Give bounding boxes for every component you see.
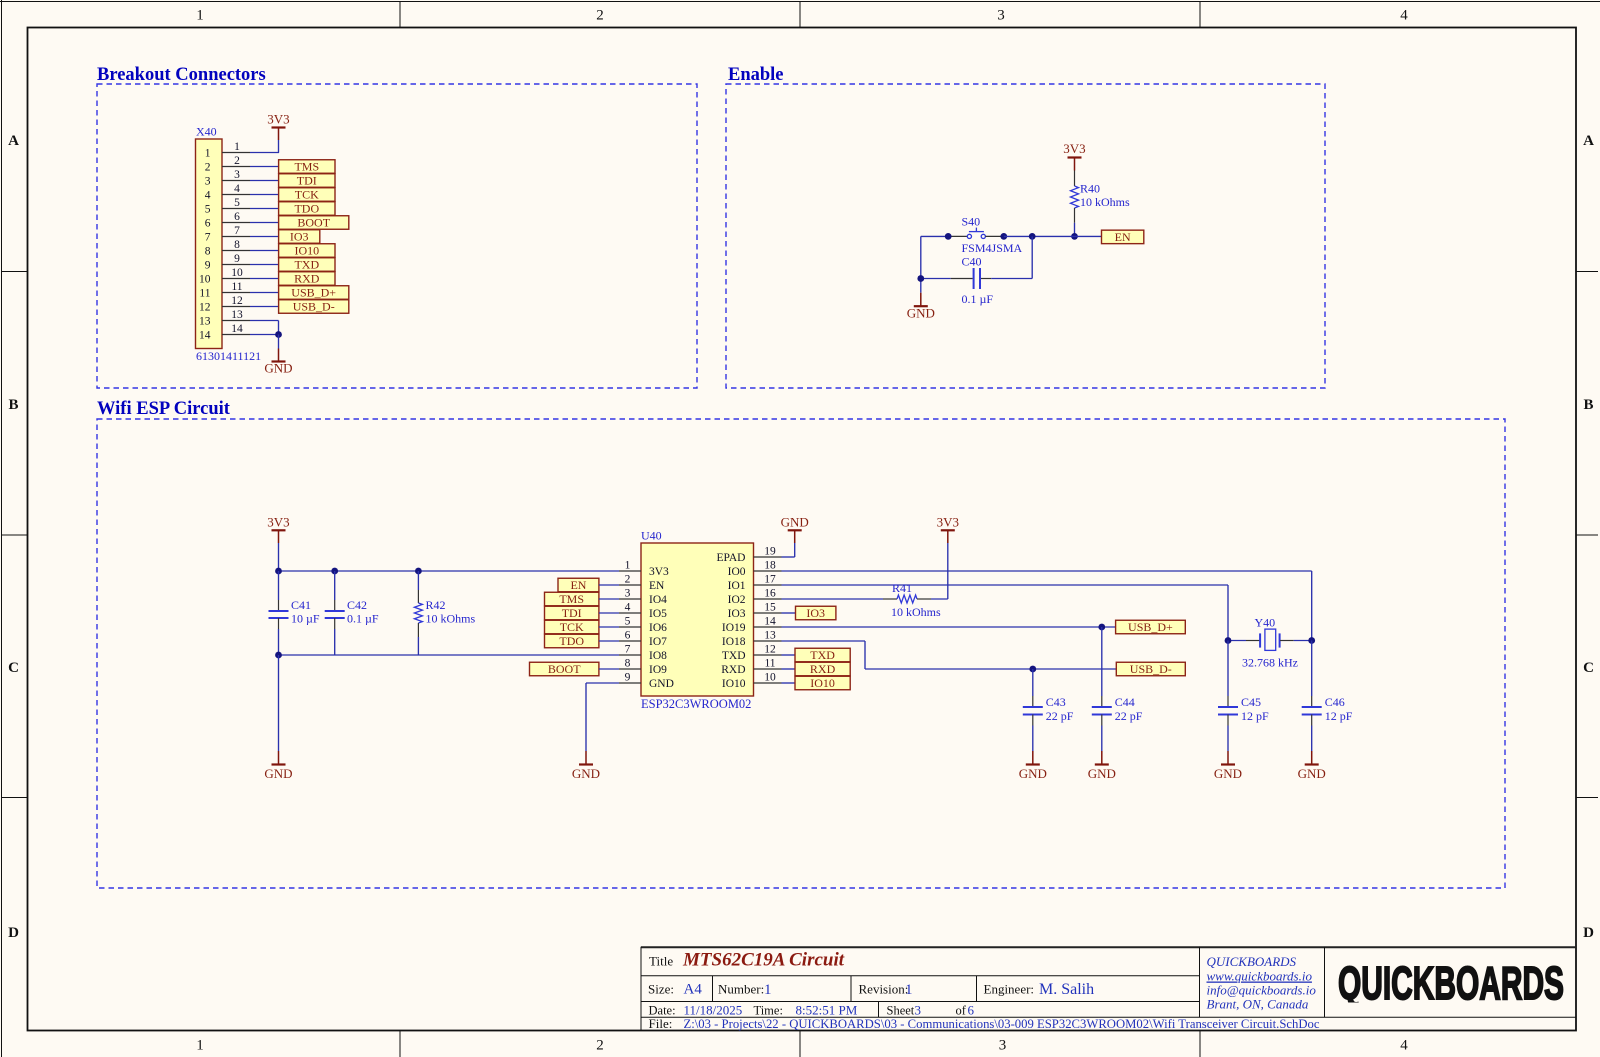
svg-text:GND: GND xyxy=(1088,766,1116,781)
wire GND net horizontal to pin 7 xyxy=(279,654,620,656)
svg-text:12 pF: 12 pF xyxy=(1241,709,1269,723)
svg-text:BOOT: BOOT xyxy=(548,662,581,676)
wire pin 3 to port xyxy=(250,180,279,182)
svg-text:61301411121: 61301411121 xyxy=(196,349,261,363)
svg-text:7: 7 xyxy=(234,225,240,237)
svg-text:Size:: Size: xyxy=(648,982,674,997)
svg-text:3V3: 3V3 xyxy=(1063,141,1085,156)
svg-text:1: 1 xyxy=(196,8,204,24)
port TMS xyxy=(545,592,599,606)
switch S40 FSM4JSMA xyxy=(948,215,1022,256)
svg-text:GND: GND xyxy=(649,678,674,690)
port TMS xyxy=(279,160,335,174)
svg-text:Enable: Enable xyxy=(728,65,784,85)
pin 17 of U40 xyxy=(754,574,782,586)
node C40 branch xyxy=(1029,233,1036,240)
svg-text:6: 6 xyxy=(205,218,211,230)
pin 12 of U40 xyxy=(754,644,782,656)
crystal Y40 32.768 kHz xyxy=(1228,616,1312,670)
svg-text:IO10: IO10 xyxy=(722,678,746,690)
svg-text:22 pF: 22 pF xyxy=(1046,709,1074,723)
node EN net junction R40 xyxy=(1071,233,1078,240)
svg-text:IO2: IO2 xyxy=(728,594,746,606)
svg-text:GND: GND xyxy=(781,515,809,530)
svg-text:3: 3 xyxy=(625,588,631,600)
svg-text:QUICKBOARDS: QUICKBOARDS xyxy=(1338,957,1564,1009)
node C43 branch xyxy=(1029,666,1036,673)
port TDI xyxy=(545,606,599,620)
svg-text:15: 15 xyxy=(764,602,776,614)
node GND branch xyxy=(917,275,924,282)
pin 9 of U40 xyxy=(619,672,641,684)
svg-text:11: 11 xyxy=(199,288,210,300)
svg-text:GND: GND xyxy=(1214,766,1242,781)
svg-text:R40: R40 xyxy=(1080,182,1100,196)
svg-text:7: 7 xyxy=(625,644,631,656)
svg-text:3V3: 3V3 xyxy=(267,515,289,530)
TITLE_BLOCK xyxy=(641,947,1576,1031)
svg-text:RXD: RXD xyxy=(294,272,320,286)
port USB_D+ xyxy=(279,286,349,300)
ground GND (X40) xyxy=(264,349,292,376)
pin 14 of U40 xyxy=(754,616,782,628)
svg-text:1: 1 xyxy=(764,982,772,998)
svg-text:QUICKBOARDS: QUICKBOARDS xyxy=(1207,954,1297,969)
svg-text:4: 4 xyxy=(1400,8,1408,24)
svg-text:18: 18 xyxy=(764,560,776,572)
power 3V3 (rail) xyxy=(267,515,289,544)
svg-text:Number:: Number: xyxy=(718,982,764,997)
wire R41 to 3V3 xyxy=(931,543,948,599)
pin 11 of X40 xyxy=(222,281,250,293)
wire 3V3 down to rail xyxy=(278,543,280,571)
svg-text:Title: Title xyxy=(649,954,673,969)
svg-text:IO4: IO4 xyxy=(649,594,667,606)
wire pin 12 to TXD port xyxy=(782,654,796,656)
port RXD xyxy=(795,662,850,676)
port TCK xyxy=(545,620,599,634)
op-amp U40 ESP32C3WROOM02 body xyxy=(641,529,754,712)
svg-text:USB_D-: USB_D- xyxy=(1130,662,1172,676)
svg-text:2: 2 xyxy=(234,155,240,167)
svg-text:22 pF: 22 pF xyxy=(1115,709,1143,723)
svg-text:Z:\03 - Projects\22 - QUICKBOA: Z:\03 - Projects\22 - QUICKBOARDS\03 - C… xyxy=(684,1017,1320,1031)
svg-text:GND: GND xyxy=(907,306,935,321)
wire pin 7 to port xyxy=(250,236,279,238)
svg-text:TCK: TCK xyxy=(295,188,319,202)
wire pin 11 to port xyxy=(250,292,279,294)
svg-text:TMS: TMS xyxy=(559,592,584,606)
svg-text:12: 12 xyxy=(199,302,211,314)
svg-text:14: 14 xyxy=(231,323,243,335)
svg-text:TDI: TDI xyxy=(297,174,317,188)
pin 7 of U40 xyxy=(619,644,641,656)
svg-text:S40: S40 xyxy=(962,215,981,229)
svg-text:USB_D-: USB_D- xyxy=(293,300,335,314)
svg-text:TXD: TXD xyxy=(810,648,835,662)
svg-text:16: 16 xyxy=(764,588,776,600)
node switch left xyxy=(945,233,952,240)
svg-text:GND: GND xyxy=(264,361,292,376)
svg-text:13: 13 xyxy=(231,309,243,321)
capacitor C44 22 pF xyxy=(1092,627,1143,751)
port EN xyxy=(1102,230,1144,244)
svg-text:TXD: TXD xyxy=(294,258,319,272)
svg-text:B: B xyxy=(1583,397,1593,413)
resistor R41 10 kOhms xyxy=(883,581,941,619)
svg-text:BOOT: BOOT xyxy=(297,216,330,230)
wire pin 13 (IO18) to USB_D- xyxy=(782,641,1117,669)
svg-text:A: A xyxy=(8,133,19,149)
svg-text:RXD: RXD xyxy=(810,662,836,676)
svg-text:3V3: 3V3 xyxy=(937,515,959,530)
svg-text:8: 8 xyxy=(625,658,631,670)
port TXD xyxy=(279,258,335,272)
svg-text:2: 2 xyxy=(625,574,631,586)
svg-text:C43: C43 xyxy=(1046,695,1066,709)
wire pin 8 to port xyxy=(250,250,279,252)
svg-text:10 kOhms: 10 kOhms xyxy=(891,605,941,619)
svg-text:EPAD: EPAD xyxy=(717,552,746,564)
svg-text:B: B xyxy=(8,397,18,413)
wire pin 14 (IO19) to USB_D+ xyxy=(782,626,1116,628)
svg-text:C41: C41 xyxy=(291,598,311,612)
node rail/R42 xyxy=(415,568,422,575)
wire 3V3 rail xyxy=(279,570,620,572)
svg-text:MTS62C19A Circuit: MTS62C19A Circuit xyxy=(682,950,845,971)
svg-text:D: D xyxy=(8,925,19,941)
svg-text:C42: C42 xyxy=(347,598,367,612)
svg-text:3V3: 3V3 xyxy=(649,566,669,578)
svg-text:info@quickboards.io: info@quickboards.io xyxy=(1207,983,1317,998)
svg-text:TMS: TMS xyxy=(294,160,319,174)
svg-text:www.quickboards.io: www.quickboards.io xyxy=(1207,969,1313,984)
ground GND (C43) xyxy=(1019,751,1047,781)
resistor R40 10 kOhms xyxy=(1071,171,1131,223)
pin 10 of X40 xyxy=(222,267,250,279)
wire pin 19 to GND xyxy=(782,543,795,557)
port USB_D+ xyxy=(1116,620,1186,634)
power 3V3 (R41) xyxy=(937,515,959,544)
wire pin 4 to port xyxy=(250,194,279,196)
node rail/C41 xyxy=(275,568,282,575)
svg-text:GND: GND xyxy=(264,766,292,781)
wire pin 2 to port xyxy=(250,166,279,168)
svg-text:TCK: TCK xyxy=(560,620,584,634)
svg-text:12 pF: 12 pF xyxy=(1325,709,1353,723)
capacitor C43 22 pF xyxy=(1023,669,1074,751)
svg-text:IO3: IO3 xyxy=(806,606,825,620)
wire BOOT port to pin 8 xyxy=(599,668,619,670)
port TDO xyxy=(279,202,335,216)
svg-text:0.1 µF: 0.1 µF xyxy=(347,612,379,626)
svg-text:11: 11 xyxy=(231,281,242,293)
svg-text:4: 4 xyxy=(205,190,211,202)
ground GND (C46) xyxy=(1298,751,1326,781)
svg-text:C44: C44 xyxy=(1115,695,1135,709)
svg-text:6: 6 xyxy=(625,630,631,642)
svg-text:4: 4 xyxy=(234,183,240,195)
wire pin 17 (IO1) to Y40 left xyxy=(782,585,1229,641)
svg-text:8: 8 xyxy=(205,246,211,258)
pin 12 of X40 xyxy=(222,295,250,307)
section Breakout Connectors xyxy=(97,65,697,388)
svg-text:10: 10 xyxy=(199,274,211,286)
ground GND (C45) xyxy=(1214,751,1242,781)
svg-text:9: 9 xyxy=(234,253,240,265)
wire 3V3 to pin 1 xyxy=(250,140,279,153)
wire pin 18 (IO0) to Y40 right xyxy=(782,571,1312,641)
pin 8 of X40 xyxy=(222,239,250,251)
svg-text:1: 1 xyxy=(196,1038,204,1054)
svg-text:D: D xyxy=(1583,925,1594,941)
junction at pin14/GND xyxy=(275,331,282,338)
wire EN port to pin 2 xyxy=(599,584,619,586)
svg-text:4: 4 xyxy=(1400,1038,1408,1054)
svg-text:13: 13 xyxy=(764,630,776,642)
svg-text:10 kOhms: 10 kOhms xyxy=(426,612,476,626)
wire TDI port to pin 4 xyxy=(599,612,619,614)
wire R40 to EN net xyxy=(1074,223,1076,237)
capacitor C41 10 uF xyxy=(269,571,320,655)
svg-text:2: 2 xyxy=(205,162,211,174)
ground GND (C44) xyxy=(1088,751,1116,781)
svg-text:9: 9 xyxy=(205,260,211,272)
port TXD xyxy=(795,648,850,662)
pin 14 of X40 xyxy=(222,323,250,335)
svg-text:C46: C46 xyxy=(1325,695,1345,709)
ground GND (C41) xyxy=(264,751,292,781)
svg-text:USB_D+: USB_D+ xyxy=(1128,620,1173,634)
svg-text:Engineer:: Engineer: xyxy=(984,982,1035,997)
svg-text:EN: EN xyxy=(649,580,665,592)
wire EN net right xyxy=(1004,235,1102,237)
pin 9 of X40 xyxy=(222,253,250,265)
wire pin 6 to port xyxy=(250,222,279,224)
svg-text:GND: GND xyxy=(1298,766,1326,781)
wire down to GND xyxy=(278,335,280,349)
port TDI xyxy=(279,174,335,188)
svg-text:8:52:51 PM: 8:52:51 PM xyxy=(796,1003,858,1018)
svg-text:RXD: RXD xyxy=(721,664,745,676)
svg-text:TDO: TDO xyxy=(559,634,584,648)
svg-text:12: 12 xyxy=(231,295,243,307)
svg-text:IO1: IO1 xyxy=(728,580,746,592)
svg-text:of: of xyxy=(956,1004,967,1018)
svg-text:10: 10 xyxy=(231,267,243,279)
ground GND (Enable) xyxy=(907,293,935,321)
svg-text:A4: A4 xyxy=(684,982,703,998)
wire EN net left xyxy=(921,235,948,237)
port TCK xyxy=(279,188,335,202)
svg-text:IO9: IO9 xyxy=(649,664,667,676)
wire pin 9 to GND xyxy=(586,683,619,751)
svg-text:Wifi ESP Circuit: Wifi ESP Circuit xyxy=(97,399,231,419)
pin 2 of U40 xyxy=(619,574,641,586)
svg-text:EN: EN xyxy=(1115,230,1131,244)
svg-text:Brant, ON, Canada: Brant, ON, Canada xyxy=(1207,997,1309,1012)
svg-text:C40: C40 xyxy=(962,255,982,269)
pin 4 of X40 xyxy=(222,183,250,195)
ground GND (U40 pin 9) xyxy=(572,751,600,781)
svg-text:ESP32C3WROOM02: ESP32C3WROOM02 xyxy=(641,697,751,711)
node C44 branch xyxy=(1098,624,1105,631)
port IO3 xyxy=(796,606,836,620)
svg-text:14: 14 xyxy=(199,330,211,342)
section Enable xyxy=(726,65,1325,388)
svg-text:3: 3 xyxy=(999,1038,1007,1054)
svg-text:U40: U40 xyxy=(641,529,662,543)
svg-text:9: 9 xyxy=(625,672,631,684)
svg-text:2: 2 xyxy=(596,1038,604,1054)
svg-text:1: 1 xyxy=(625,560,631,572)
wire pin 12 to port xyxy=(250,306,279,308)
capacitor C40 0.1 uF xyxy=(921,236,1032,306)
wire pin 5 to port xyxy=(250,208,279,210)
port USB_D- xyxy=(1116,662,1185,676)
port BOOT xyxy=(279,216,349,230)
wire pin 9 to port xyxy=(250,264,279,266)
svg-text:3: 3 xyxy=(915,1003,922,1018)
svg-text:5: 5 xyxy=(205,204,211,216)
svg-text:11/18/2025: 11/18/2025 xyxy=(684,1003,743,1018)
svg-text:IO3: IO3 xyxy=(728,608,746,620)
pin 7 of X40 xyxy=(222,225,250,237)
wire pin 15 to IO3 port xyxy=(782,612,796,614)
port TDO xyxy=(545,634,599,648)
node rail/C42 xyxy=(331,568,338,575)
svg-text:A: A xyxy=(1583,133,1594,149)
port IO3 xyxy=(279,230,320,244)
wire pin 14 to GND net xyxy=(250,334,279,336)
svg-text:Time:: Time: xyxy=(754,1004,783,1018)
wire left branch down xyxy=(920,236,922,292)
svg-text:32.768 kHz: 32.768 kHz xyxy=(1242,656,1298,670)
wire pin 11 to RXD port xyxy=(782,668,796,670)
svg-text:3: 3 xyxy=(234,169,240,181)
svg-text:3: 3 xyxy=(997,8,1005,24)
port IO10 xyxy=(795,676,850,690)
svg-text:C: C xyxy=(1583,660,1594,676)
svg-text:12: 12 xyxy=(764,644,776,656)
svg-text:1: 1 xyxy=(205,148,211,160)
svg-text:IO8: IO8 xyxy=(649,650,667,662)
svg-text:17: 17 xyxy=(764,574,776,586)
port USB_D- xyxy=(279,300,349,314)
svg-text:11: 11 xyxy=(764,658,775,670)
pin 13 of U40 xyxy=(754,630,782,642)
pin 6 of U40 xyxy=(619,630,641,642)
svg-text:C: C xyxy=(8,660,19,676)
svg-text:IO5: IO5 xyxy=(649,608,667,620)
svg-text:14: 14 xyxy=(764,616,776,628)
resistor R42 10 kOhms xyxy=(414,571,475,655)
svg-text:10 kOhms: 10 kOhms xyxy=(1080,195,1130,209)
svg-text:Revision:: Revision: xyxy=(859,982,909,997)
wire pin 13 to GND net xyxy=(250,321,279,335)
pin 4 of U40 xyxy=(619,602,641,614)
wire TMS port to pin 3 xyxy=(599,598,619,600)
svg-text:M. Salih: M. Salih xyxy=(1039,981,1094,998)
svg-text:R41: R41 xyxy=(892,581,912,595)
wire pin 10 to IO10 port xyxy=(782,682,796,684)
svg-text:IO6: IO6 xyxy=(649,622,667,634)
svg-text:5: 5 xyxy=(625,616,631,628)
pin 16 of U40 xyxy=(754,588,782,600)
svg-text:TDI: TDI xyxy=(562,606,582,620)
power 3V3 (Enable) xyxy=(1063,141,1085,171)
pin 8 of U40 xyxy=(619,658,641,670)
svg-text:Y40: Y40 xyxy=(1255,616,1276,630)
pin 5 of X40 xyxy=(222,197,250,209)
svg-text:TDO: TDO xyxy=(294,202,319,216)
svg-text:3V3: 3V3 xyxy=(267,112,289,127)
port IO10 xyxy=(279,244,335,258)
port EN xyxy=(558,578,599,592)
pin 1 of X40 xyxy=(222,141,250,153)
svg-text:3: 3 xyxy=(205,176,211,188)
wire pin 10 to port xyxy=(250,278,279,280)
node switch right xyxy=(1000,233,1007,240)
svg-text:1: 1 xyxy=(905,982,913,998)
node Y40 right xyxy=(1308,637,1315,644)
wire TDO port to pin 6 xyxy=(599,640,619,642)
pin 11 of U40 xyxy=(754,658,782,670)
svg-text:19: 19 xyxy=(764,546,776,558)
svg-text:FSM4JSMA: FSM4JSMA xyxy=(962,241,1023,255)
svg-text:File:: File: xyxy=(649,1016,673,1031)
svg-text:8: 8 xyxy=(234,239,240,251)
pin 10 of U40 xyxy=(754,672,782,684)
power 3V3 (X40) xyxy=(267,112,289,141)
pin 18 of U40 xyxy=(754,560,782,572)
port BOOT xyxy=(530,662,599,676)
svg-text:Breakout Connectors: Breakout Connectors xyxy=(97,65,266,85)
pin 2 of X40 xyxy=(222,155,250,167)
node GND net/C41 xyxy=(275,652,282,659)
wire pin 16 to R41 xyxy=(782,598,884,600)
capacitor C46 12 pF xyxy=(1302,641,1353,752)
svg-text:4: 4 xyxy=(625,602,631,614)
svg-text:GND: GND xyxy=(572,766,600,781)
pin 19 of U40 xyxy=(754,546,782,558)
svg-text:Sheet: Sheet xyxy=(887,1004,915,1018)
svg-text:7: 7 xyxy=(205,232,211,244)
pin 3 of X40 xyxy=(222,169,250,181)
svg-text:TXD: TXD xyxy=(722,650,746,662)
node Y40 left xyxy=(1225,637,1232,644)
svg-text:6: 6 xyxy=(968,1003,975,1018)
svg-text:0.1 µF: 0.1 µF xyxy=(962,292,994,306)
svg-text:IO3: IO3 xyxy=(290,230,309,244)
svg-text:10 µF: 10 µF xyxy=(291,612,320,626)
capacitor C42 0.1 uF xyxy=(325,571,379,655)
svg-text:C45: C45 xyxy=(1241,695,1261,709)
svg-text:IO7: IO7 xyxy=(649,636,667,648)
svg-text:X40: X40 xyxy=(196,125,217,139)
svg-text:6: 6 xyxy=(234,211,240,223)
wire TCK port to pin 5 xyxy=(599,626,619,628)
svg-text:13: 13 xyxy=(199,316,211,328)
svg-text:IO10: IO10 xyxy=(294,244,319,258)
svg-text:2: 2 xyxy=(596,8,604,24)
section Wifi ESP Circuit xyxy=(97,399,1505,888)
pin 15 of U40 xyxy=(754,602,782,614)
pin 1 of U40 xyxy=(619,560,641,572)
pin 5 of U40 xyxy=(619,616,641,628)
svg-text:R42: R42 xyxy=(426,598,446,612)
port RXD xyxy=(279,272,335,286)
